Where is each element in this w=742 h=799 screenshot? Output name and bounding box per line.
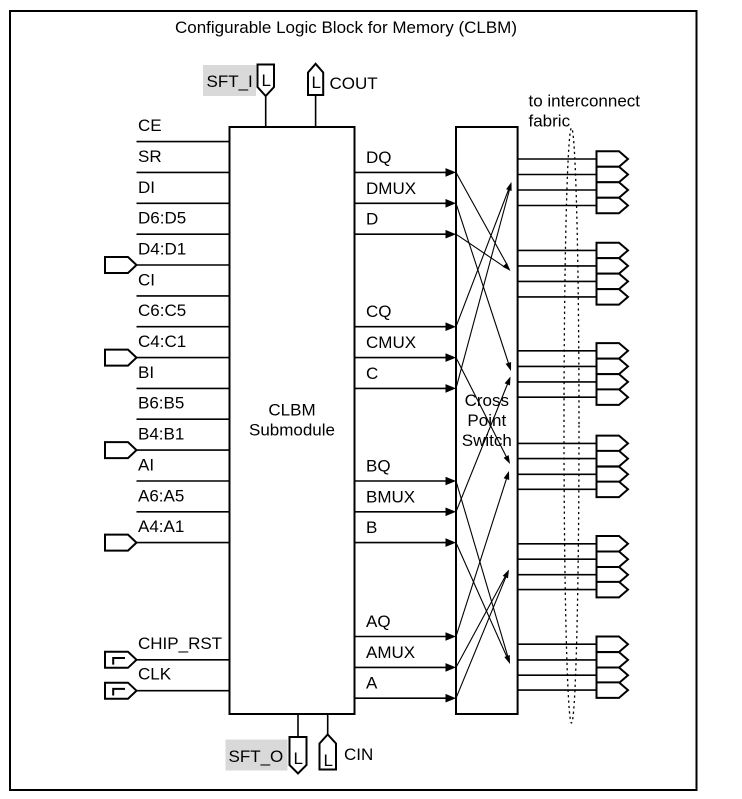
- interconnect tag pentagon g4p2: [597, 451, 629, 467]
- interconnect tag pentagon g6p1: [597, 637, 629, 653]
- clock input pentagon CHIP_RST: [105, 652, 137, 668]
- clock symbol CLK: [113, 689, 125, 696]
- wire CIN from CLBM bottom: [327, 714, 329, 735]
- interconnect tag pentagon g6p3: [597, 668, 629, 684]
- crosspoint arrowhead U4: [503, 570, 509, 579]
- wire input B6:B5: [137, 418, 230, 420]
- clock symbol CHIP_RST: [113, 658, 125, 665]
- crosspoint route AQ: [456, 478, 507, 636]
- svg-text:AI: AI: [138, 456, 154, 475]
- svg-text:SFT_O: SFT_O: [229, 747, 284, 766]
- wire interconnect g4w2: [518, 458, 597, 460]
- crosspoint route CMUX: [456, 358, 507, 458]
- crosspoint arrowhead D1: [503, 263, 511, 271]
- svg-text:CLK: CLK: [138, 665, 172, 684]
- svg-text:C6:C5: C6:C5: [138, 301, 186, 320]
- wire output BMUX with arrowhead: [355, 511, 447, 513]
- crosspoint route BMUX: [456, 384, 508, 512]
- wire interconnect g5w4: [518, 589, 597, 591]
- input tag pentagon C4:C1: [105, 350, 137, 366]
- svg-text:DMUX: DMUX: [366, 179, 416, 198]
- crosspoint route CQ: [456, 189, 509, 327]
- interconnect tag pentagon g3p1: [597, 343, 629, 359]
- wire input DI: [137, 202, 230, 204]
- svg-text:Configurable Logic Block for M: Configurable Logic Block for Memory (CLB…: [175, 18, 517, 37]
- svg-text:BI: BI: [138, 363, 154, 382]
- svg-text:AMUX: AMUX: [366, 643, 415, 662]
- svg-text:A6:A5: A6:A5: [138, 486, 184, 505]
- svg-text:L: L: [294, 749, 303, 768]
- interconnect tag pentagon g5p4: [597, 582, 629, 598]
- svg-text:BMUX: BMUX: [366, 487, 415, 506]
- wire input AI: [137, 480, 230, 482]
- wire interconnect g6w2: [518, 659, 597, 661]
- interconnect tag pentagon g6p2: [597, 652, 629, 668]
- wire COUT to CLBM top: [315, 95, 317, 127]
- interconnect tag pentagon g3p3: [597, 374, 629, 390]
- crosspoint arrowhead U2: [505, 377, 511, 386]
- svg-text:SR: SR: [138, 147, 162, 166]
- svg-text:L: L: [324, 751, 333, 770]
- svg-text:D6:D5: D6:D5: [138, 209, 186, 228]
- wire input SR: [137, 171, 230, 173]
- wire interconnect g4w3: [518, 473, 597, 475]
- interconnect tag pentagon g1p1: [597, 151, 629, 167]
- interconnect tag pentagon g4p3: [597, 467, 629, 483]
- svg-text:CHIP_RST: CHIP_RST: [138, 634, 222, 653]
- wire SFT_I to CLBM top: [265, 96, 267, 127]
- label SFT_I (shaded): [203, 65, 256, 96]
- svg-text:B: B: [366, 518, 377, 537]
- svg-text:CMUX: CMUX: [366, 333, 416, 352]
- wire output B with arrowhead: [355, 542, 447, 544]
- wire input CHIP_RST: [137, 659, 230, 661]
- crosspoint route B: [456, 543, 507, 658]
- wire interconnect g2w3: [518, 280, 597, 282]
- crosspoint route AMUX: [456, 576, 505, 667]
- svg-text:D: D: [366, 210, 378, 229]
- interconnect tag pentagon g4p1: [597, 436, 629, 452]
- wire interconnect g4w4: [518, 488, 597, 490]
- svg-text:Point: Point: [467, 411, 506, 430]
- wire interconnect g1w4: [518, 205, 597, 207]
- crosspoint route DQ: [456, 172, 507, 264]
- wire interconnect g1w3: [518, 189, 597, 191]
- wire interconnect g3w1: [518, 350, 597, 352]
- wire interconnect g2w2: [518, 265, 597, 267]
- wire interconnect g6w1: [518, 643, 597, 645]
- svg-text:B6:B5: B6:B5: [138, 394, 184, 413]
- block U1 CLBM Submodule: [230, 127, 355, 714]
- svg-text:L: L: [262, 71, 271, 90]
- wire interconnect g1w2: [518, 174, 597, 176]
- block U2 Cross Point Switch: [456, 127, 518, 714]
- input tag pentagon B4:B1: [105, 442, 137, 458]
- pin COUT latch tag (L, pointing up): [308, 64, 323, 95]
- wire input C6:C5: [137, 326, 230, 328]
- svg-text:COUT: COUT: [330, 74, 378, 93]
- interconnect fabric boundary (dashed ellipse): [564, 128, 579, 723]
- interconnect tag pentagon g1p4: [597, 198, 629, 213]
- interconnect tag pentagon g2p3: [597, 274, 629, 290]
- interconnect tag pentagon g5p1: [597, 536, 629, 552]
- wire interconnect g6w3: [518, 674, 597, 676]
- crosspoint arrowhead D3: [504, 455, 510, 464]
- wire interconnect g3w4: [518, 396, 597, 398]
- svg-text:D4:D1: D4:D1: [138, 240, 186, 259]
- svg-text:CQ: CQ: [366, 302, 392, 321]
- interconnect tag pentagon g2p4: [597, 289, 629, 305]
- wire input CLK: [137, 690, 230, 692]
- wire output C with arrowhead: [355, 387, 447, 389]
- wire output AMUX with arrowhead: [355, 666, 447, 668]
- wire interconnect g6w4: [518, 689, 597, 691]
- svg-text:L: L: [312, 73, 321, 92]
- svg-text:to interconnect: to interconnect: [529, 92, 641, 111]
- wire input B4:B1: [137, 449, 230, 451]
- svg-text:SFT_I: SFT_I: [207, 72, 253, 91]
- crosspoint route D: [456, 234, 504, 267]
- interconnect tag pentagon g3p2: [597, 359, 629, 375]
- interconnect tag pentagon g2p2: [597, 258, 629, 274]
- pin SFT_O latch tag (L, pointing down): [290, 737, 307, 774]
- wire output DQ with arrowhead: [355, 171, 447, 173]
- svg-text:fabric: fabric: [529, 112, 571, 131]
- interconnect tag pentagon g6p4: [597, 682, 629, 698]
- svg-text:AQ: AQ: [366, 612, 391, 631]
- pin CIN latch tag (L, pointing up): [320, 735, 337, 770]
- wire interconnect g2w4: [518, 296, 597, 298]
- wire interconnect g4w1: [518, 442, 597, 444]
- wire input CI: [137, 295, 230, 297]
- wire SFT_O from CLBM bottom: [297, 714, 299, 737]
- crosspoint route A: [456, 576, 506, 698]
- wire input A4:A1: [137, 542, 230, 544]
- svg-text:Switch: Switch: [462, 431, 512, 450]
- crosspoint arrowhead D4: [504, 655, 510, 664]
- svg-text:CE: CE: [138, 116, 162, 135]
- wire input A6:A5: [137, 511, 230, 513]
- svg-text:C4:C1: C4:C1: [138, 332, 186, 351]
- interconnect tag pentagon g4p4: [597, 482, 629, 498]
- interconnect tag pentagon g1p2: [597, 167, 629, 182]
- wire output BQ with arrowhead: [355, 480, 447, 482]
- crosspoint arrowhead U3: [504, 471, 510, 480]
- svg-text:B4:B1: B4:B1: [138, 425, 184, 444]
- clock input pentagon CLK: [105, 683, 137, 699]
- interconnect tag pentagon g1p3: [597, 182, 629, 198]
- wire output AQ with arrowhead: [355, 636, 447, 638]
- wire input CE: [137, 141, 230, 143]
- label SFT_O (shaded): [226, 740, 288, 771]
- svg-text:DQ: DQ: [366, 148, 392, 167]
- svg-text:A: A: [366, 674, 378, 693]
- wire interconnect g2w1: [518, 249, 597, 251]
- svg-text:Submodule: Submodule: [249, 421, 335, 440]
- wire interconnect g3w2: [518, 365, 597, 367]
- input tag pentagon A4:A1: [105, 535, 137, 551]
- wire input C4:C1: [137, 357, 230, 359]
- crosspoint route DMUX: [456, 203, 509, 364]
- wire input D4:D1: [137, 264, 230, 266]
- interconnect tag pentagon g5p2: [597, 552, 629, 568]
- pin SFT_I latch tag (L, pointing down): [258, 65, 275, 97]
- wire output CMUX with arrowhead: [355, 357, 447, 359]
- wire interconnect g5w3: [518, 574, 597, 576]
- interconnect tag pentagon g5p3: [597, 567, 629, 583]
- interconnect tag pentagon g2p1: [597, 243, 629, 258]
- input tag pentagon D4:D1: [105, 257, 137, 273]
- wire interconnect g5w1: [518, 543, 597, 545]
- svg-text:CI: CI: [138, 270, 155, 289]
- svg-text:CLBM: CLBM: [268, 401, 315, 420]
- wire output CQ with arrowhead: [355, 326, 447, 328]
- svg-text:A4:A1: A4:A1: [138, 517, 184, 536]
- svg-text:C: C: [366, 364, 378, 383]
- wire interconnect g5w2: [518, 558, 597, 560]
- interconnect tag pentagon g3p4: [597, 389, 629, 405]
- svg-text:Cross: Cross: [465, 391, 509, 410]
- wire input BI: [137, 387, 230, 389]
- svg-text:CIN: CIN: [344, 745, 373, 764]
- crosspoint arrowhead D2: [506, 362, 512, 371]
- crosspoint route C: [456, 189, 510, 388]
- wire input D6:D5: [137, 233, 230, 235]
- crosspoint arrowhead U1: [506, 182, 512, 191]
- wire output A with arrowhead: [355, 697, 447, 699]
- svg-text:BQ: BQ: [366, 457, 391, 476]
- wire interconnect g3w3: [518, 381, 597, 383]
- svg-text:DI: DI: [138, 178, 155, 197]
- wire interconnect g1w1: [518, 158, 597, 160]
- crosspoint route BQ: [456, 481, 508, 657]
- wire output DMUX with arrowhead: [355, 202, 447, 204]
- wire output D with arrowhead: [355, 233, 447, 235]
